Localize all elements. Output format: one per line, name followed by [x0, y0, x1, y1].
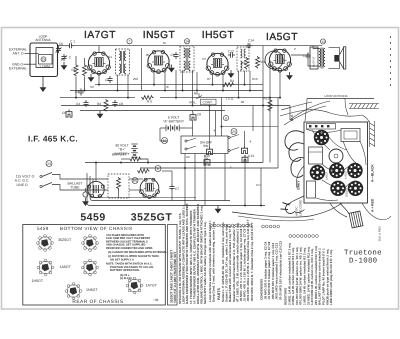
tube V5 35Z5GT	[139, 178, 159, 198]
svg-text:"A" BATTERY: "A" BATTERY	[163, 120, 185, 124]
svg-text:.0002 MFD. MICA B. T. moulded: .0002 MFD. MICA B. T. moulded mica 2 req…	[250, 222, 254, 302]
IF can box	[341, 129, 360, 142]
trimmer C	[61, 54, 66, 61]
wire ballast tube top	[95, 163, 97, 182]
svg-text:ANT. O: ANT. O	[13, 52, 24, 56]
svg-text:IA7GT: IA7GT	[84, 30, 116, 41]
ground V4	[286, 72, 293, 80]
svg-text:9: 9	[225, 116, 227, 120]
svg-text:25: 25	[232, 130, 236, 134]
pot box	[201, 99, 217, 105]
svg-text:R 6: R 6	[147, 100, 152, 104]
svg-text:1H5GT: 1H5GT	[32, 279, 44, 283]
socket P1	[314, 130, 329, 145]
svg-text:1A5GT: 1A5GT	[326, 171, 329, 180]
svg-text:LINE O: LINE O	[16, 183, 27, 187]
svg-text:C7: C7	[175, 187, 179, 191]
wires from schematic into pictorial	[290, 101, 330, 120]
svg-text:Truetone: Truetone	[344, 250, 382, 258]
socket 1N5GT	[65, 283, 82, 300]
svg-text:( C11: ( C11	[226, 97, 234, 101]
tube V1 1A7GT	[88, 52, 111, 75]
svg-text:R12: R12	[264, 97, 270, 101]
tube V4 1A5GT	[269, 49, 292, 72]
svg-text:G1: G1	[108, 55, 112, 59]
svg-text:IK: IK	[166, 85, 169, 89]
svg-text:IA5GT: IA5GT	[266, 32, 298, 43]
svg-text:40: 40	[97, 194, 101, 198]
ecap C19	[242, 155, 248, 163]
ground antenna	[40, 84, 47, 92]
chassis outline	[304, 122, 368, 203]
svg-text:1 OHM: 1 OHM	[39, 65, 50, 69]
tube lineup strip box	[168, 225, 178, 306]
speaker	[329, 47, 346, 69]
ref circle 16	[162, 138, 168, 144]
ballast tube circle	[88, 181, 105, 197]
cap C2	[107, 76, 112, 83]
svg-text:GREY: GREY	[297, 180, 301, 190]
socket 1A5GT	[82, 259, 99, 276]
ground V1 cathode	[88, 74, 95, 82]
ballast resistor	[117, 177, 121, 190]
socket P2	[310, 165, 325, 180]
svg-text:P: P	[294, 47, 296, 51]
wires upper pictorial	[281, 102, 312, 110]
ref circle T1	[127, 39, 132, 44]
loop antenna inner box	[36, 48, 53, 68]
svg-text:.02: .02	[240, 100, 245, 104]
ground V3	[228, 70, 235, 78]
resistor R2	[83, 64, 87, 77]
svg-text:35Z5GT: 35Z5GT	[346, 187, 349, 197]
svg-text:B+: B+	[163, 41, 167, 45]
harness bottom long wires	[232, 203, 342, 217]
svg-text:Switch 4PDT wafer AC-DC batter: Switch 4PDT wafer AC-DC battery change o…	[203, 221, 207, 304]
horizontal bus y97.6	[60, 97, 135, 99]
wire antenna top line	[307, 98, 374, 100]
dashed line right edge	[390, 36, 392, 90]
svg-text:RECEIVER CONNECTED AND OPER.: RECEIVER CONNECTED AND OPER.	[106, 247, 153, 250]
ecap C8b	[66, 110, 72, 118]
svg-text:C9: C9	[171, 53, 175, 57]
socket P4	[347, 163, 362, 178]
ground trimmer	[61, 62, 68, 70]
ref circle 23	[46, 161, 52, 167]
svg-text:R7: R7	[207, 77, 211, 81]
battery A	[166, 125, 182, 131]
output transformer box	[310, 47, 318, 69]
component box left	[309, 147, 323, 164]
ref circle 15	[41, 57, 46, 62]
cap C16	[305, 53, 310, 60]
svg-text:13: 13	[321, 40, 325, 44]
svg-text:C2: C2	[105, 78, 109, 82]
battery B	[131, 144, 137, 160]
wire bus y168	[140, 167, 278, 169]
wire top bus	[58, 45, 68, 47]
ref circle 6	[155, 166, 161, 172]
svg-text:5459: 5459	[80, 212, 105, 224]
svg-text:C14: C14	[248, 38, 254, 42]
svg-text:1A7GT: 1A7GT	[146, 284, 158, 288]
output transformer T4	[319, 48, 325, 69]
horizontal bus y90.5	[70, 90, 263, 92]
svg-text:LOOP ANTENNA: LOOP ANTENNA	[324, 94, 347, 98]
svg-text:R2: R2	[87, 68, 91, 72]
socket 2 top	[82, 235, 99, 252]
ground mid	[97, 111, 104, 119]
svg-text:C8: C8	[62, 111, 66, 115]
svg-text:OUTPUT: OUTPUT	[313, 56, 316, 67]
ref circle T2	[184, 39, 189, 44]
wire bus y200.5	[90, 176, 230, 201]
cap C7	[169, 184, 174, 191]
svg-text:7: 7	[129, 40, 131, 44]
socket P5	[330, 181, 345, 196]
svg-text:C5: C5	[75, 90, 79, 94]
wire bus y162.5	[85, 162, 263, 164]
IF transformer T1	[116, 49, 130, 75]
svg-text:C8: C8	[197, 113, 201, 117]
svg-text:C13: C13	[248, 154, 254, 158]
cap C9	[173, 52, 178, 59]
svg-text:D-1080: D-1080	[349, 258, 377, 266]
svg-text:14: 14	[185, 40, 189, 44]
ballast dashed box	[108, 174, 129, 198]
svg-text:20-20 MFD 150 V electrolytic c: 20-20 MFD 150 V electrolytic can C10 C13	[279, 241, 283, 300]
AC plug	[281, 203, 305, 214]
svg-text:IH5GT: IH5GT	[202, 30, 235, 41]
svg-text:BLK & RED: BLK & RED	[378, 226, 382, 241]
ground V2	[168, 65, 175, 73]
svg-text:EXTERNAL: EXTERNAL	[9, 67, 27, 71]
tube V2 1N5GT	[147, 50, 170, 73]
tube V3 1H5GT	[206, 53, 229, 76]
resistor R9	[245, 57, 249, 70]
resistor R11	[256, 56, 260, 69]
battery dropping resistor	[129, 157, 142, 161]
svg-text:+: +	[249, 139, 252, 144]
wire bus y110.5	[80, 110, 225, 112]
resistor R1	[74, 64, 78, 77]
svg-text:35Z5GT: 35Z5GT	[131, 212, 173, 224]
svg-text:IN5GT: IN5GT	[143, 30, 176, 41]
svg-text:REAR OF CHASSIS: REAR OF CHASSIS	[72, 299, 123, 305]
terminal strip	[307, 124, 336, 130]
svg-text:R8: R8	[194, 92, 198, 96]
ground pilot	[82, 198, 89, 206]
svg-text:CONT.: CONT.	[203, 101, 213, 105]
cord from chassis to plug	[290, 196, 304, 203]
wires vertical drops top section	[98, 74, 100, 85]
socket 1A7GT	[126, 277, 143, 294]
svg-text:R5: R5	[133, 179, 137, 183]
parts item circles row d	[289, 235, 318, 238]
switch box	[181, 136, 228, 154]
junction dots	[98, 84, 100, 86]
cap C8	[112, 100, 117, 107]
svg-text:6: 6	[157, 167, 159, 171]
wire line to ballast	[52, 175, 108, 180]
svg-text:R11: R11	[260, 60, 266, 64]
socket P6	[348, 181, 363, 196]
ref circle 25	[231, 129, 237, 135]
loop antenna outer box	[30, 43, 58, 77]
svg-text:A + RED: A + RED	[371, 198, 375, 212]
ecap C13	[242, 146, 248, 154]
voltage notes block	[106, 234, 167, 280]
ref circle 9	[223, 115, 228, 120]
svg-text:BLK.: BLK.	[290, 114, 294, 121]
component box left lower	[307, 181, 316, 198]
switch arm right	[228, 136, 230, 138]
wire plate to transformer	[291, 53, 308, 56]
socket 5459	[37, 235, 54, 252]
svg-text:TUBE: TUBE	[70, 186, 80, 190]
ground power	[215, 206, 222, 214]
wire R1 R2 top	[75, 56, 77, 64]
svg-text:5459: 5459	[37, 226, 49, 231]
svg-text:(c) B-C10: (c) B-C10	[120, 277, 132, 280]
cap C4	[83, 100, 88, 107]
wire ext ant	[25, 52, 39, 54]
harness to connector	[340, 203, 349, 214]
harness wires over chassis	[306, 129, 341, 133]
svg-text:250: 250	[133, 77, 138, 81]
svg-text:A—BLACK: A—BLACK	[371, 164, 375, 182]
resistor R6	[141, 96, 154, 100]
svg-text:ON SET SUPPLY it: ON SET SUPPLY it	[110, 258, 134, 261]
svg-text:LINE CORD: LINE CORD	[299, 199, 303, 216]
wire antenna lead down	[42, 77, 44, 86]
svg-text:R10: R10	[252, 77, 258, 81]
svg-text:C17: C17	[256, 183, 262, 187]
svg-text:1A5GT: 1A5GT	[60, 265, 72, 269]
socket P3	[329, 163, 344, 178]
cap C10 coupling	[228, 52, 235, 57]
svg-text:35Z5GT: 35Z5GT	[58, 238, 72, 242]
hatched antenna bar top	[349, 104, 379, 109]
chassis box frame	[23, 225, 166, 306]
IF transformer T2	[180, 46, 194, 72]
svg-text:C9: C9	[202, 57, 206, 61]
svg-text:BATTERY OPERATION.: BATTERY OPERATION.	[110, 269, 140, 272]
svg-text:+: +	[230, 165, 232, 169]
ecap C10	[207, 147, 213, 155]
svg-text:BOTTOM VIEW OF CHASSIS: BOTTOM VIEW OF CHASSIS	[60, 226, 133, 231]
svg-text:BATTERY: BATTERY	[112, 152, 127, 156]
1-ohm resistor box	[39, 55, 53, 65]
svg-text:R4: R4	[230, 79, 234, 83]
parts item circles row c	[262, 225, 280, 228]
svg-text:+36: +36	[153, 298, 159, 302]
svg-text:15: 15	[42, 58, 46, 62]
harness curves left	[285, 131, 304, 150]
svg-text:23: 23	[47, 162, 51, 166]
antenna side hatched bar	[370, 121, 375, 147]
svg-text:1N5GT: 1N5GT	[345, 170, 348, 179]
switch contacts in box	[185, 140, 187, 142]
svg-text:ANTENNA: ANTENNA	[35, 38, 51, 42]
socket 1H5GT	[37, 259, 54, 276]
svg-text:I.F. 465 K.C.: I.F. 465 K.C.	[28, 134, 78, 144]
osc coil T3	[237, 47, 249, 71]
ref circle R5	[132, 178, 138, 184]
pilot lamp	[83, 192, 88, 197]
filter can	[329, 149, 343, 163]
svg-text:C12: C12	[228, 49, 234, 53]
svg-text:LINE CORD with plug AC-DC 6 ft: LINE CORD with plug AC-DC 6 ft. 1 req.	[329, 249, 333, 305]
resistor R3	[104, 99, 108, 112]
pilot lamp resistor	[137, 169, 150, 173]
parts item circles row b	[210, 224, 252, 227]
horizontal bus y84.6	[95, 84, 263, 86]
wire bus y205.5	[87, 173, 265, 206]
resistor R4 horizontal	[222, 83, 235, 87]
wire bus y197.5 nested	[93, 179, 196, 198]
wire grid drop V1	[98, 46, 100, 52]
cap C5	[78, 89, 83, 96]
ref circle 13	[320, 39, 325, 44]
wire bus y105.5	[61, 105, 290, 107]
battery cable connector	[349, 211, 363, 228]
ecap C8e	[190, 113, 196, 121]
svg-text:Gang Cond. 2 sect. with trimme: Gang Cond. 2 sect. with trimmers and mtg…	[212, 221, 216, 302]
svg-text:TUBE KIT D-1080 TRUETONE S: TUBE KIT D-1080 TRUETONE SET	[173, 251, 177, 303]
svg-text:SW.: SW.	[203, 144, 209, 148]
svg-text:C 1: C 1	[70, 39, 75, 43]
svg-text:.05: .05	[145, 53, 150, 57]
switch line 1	[40, 175, 42, 177]
wire bus y126.5	[222, 126, 279, 128]
svg-text:1N5GT: 1N5GT	[86, 288, 98, 292]
wire verticals mid	[192, 111, 194, 113]
svg-text:(b) CANNOT BE MEASURED WITH EX: (b) CANNOT BE MEASURED WITH EXTERNAL	[108, 251, 167, 254]
wire gnd	[24, 63, 37, 65]
ecap C18	[204, 158, 210, 166]
svg-text:R9: R9	[241, 61, 245, 65]
svg-text:VOL.: VOL.	[189, 101, 197, 105]
svg-text:R1: R1	[72, 68, 76, 72]
switch line 2	[40, 185, 42, 187]
